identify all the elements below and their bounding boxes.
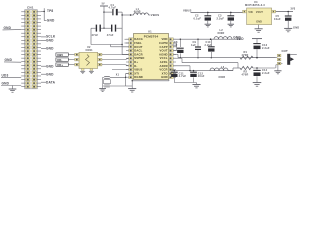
svg-text:AGND: AGND xyxy=(159,52,168,56)
junction xyxy=(132,80,133,81)
svg-text:GND: GND xyxy=(293,26,299,30)
svg-text:SSPND: SSPND xyxy=(134,56,144,60)
wire regulator ground pin xyxy=(258,25,260,29)
wire xyxy=(102,64,125,66)
wire VDD rail xyxy=(173,38,240,40)
wire xyxy=(173,46,176,48)
wire xyxy=(125,73,127,86)
svg-text:VOUT: VOUT xyxy=(256,12,264,14)
capacitor C7 47nF xyxy=(111,25,113,32)
junction xyxy=(210,38,212,40)
wire xyxy=(101,27,111,29)
wire xyxy=(125,38,129,40)
svg-text:GND: GND xyxy=(47,18,55,22)
svg-text:PCM2704: PCM2704 xyxy=(144,35,159,39)
junction xyxy=(256,57,258,59)
svg-text:470R: 470R xyxy=(242,72,249,76)
svg-text:1uF: 1uF xyxy=(191,44,196,47)
wire xyxy=(174,82,196,84)
svg-text:GND: GND xyxy=(161,75,168,79)
wire xyxy=(116,27,122,29)
wire xyxy=(41,73,46,75)
svg-text:2.2uF: 2.2uF xyxy=(217,16,225,20)
svg-text:0.1uF: 0.1uF xyxy=(194,16,202,20)
wire xyxy=(122,46,129,48)
wire xyxy=(91,44,122,46)
svg-text:TP8: TP8 xyxy=(47,9,53,13)
wire right channel xyxy=(173,57,182,59)
wire xyxy=(44,20,46,22)
svg-text:UD-: UD- xyxy=(57,58,63,62)
junction xyxy=(121,14,122,15)
ground xyxy=(89,70,94,72)
svg-text:GND: GND xyxy=(2,82,10,86)
ground xyxy=(128,88,136,90)
svg-text:MCP1825S-3.3: MCP1825S-3.3 xyxy=(245,3,265,7)
ground xyxy=(255,28,263,30)
svg-text:GND: GND xyxy=(46,39,54,43)
svg-text:GND: GND xyxy=(5,58,13,62)
wire xyxy=(112,69,129,71)
svg-text:D+: D+ xyxy=(134,60,138,64)
svg-text:XTO: XTO xyxy=(162,71,168,75)
svg-text:DGND: DGND xyxy=(134,75,143,79)
wire xyxy=(148,14,150,16)
net label UD- boxed xyxy=(56,58,68,61)
svg-text:AZRR: AZRR xyxy=(160,64,168,68)
svg-text:10uF: 10uF xyxy=(274,17,281,21)
svg-text:GND: GND xyxy=(256,22,262,24)
svg-text:DACR: DACR xyxy=(134,52,142,56)
wire xyxy=(43,8,45,20)
svg-text:UD+: UD+ xyxy=(57,63,63,67)
ground xyxy=(284,27,292,29)
pin 2 xyxy=(272,10,276,13)
wire xyxy=(102,77,104,88)
wire xyxy=(68,54,74,56)
svg-text:GND: GND xyxy=(46,72,54,76)
wire xyxy=(102,54,125,56)
capacitor C11 4.7uF xyxy=(173,71,175,72)
wire xyxy=(253,57,276,59)
pin 1 xyxy=(243,10,247,13)
svg-text:2.2uF: 2.2uF xyxy=(262,46,270,50)
ground xyxy=(228,23,234,25)
svg-text:2.2uF: 2.2uF xyxy=(262,71,270,75)
wire xyxy=(41,65,46,67)
wire xyxy=(173,42,176,44)
svg-text:4.7uF: 4.7uF xyxy=(179,74,187,78)
svg-text:3V3: 3V3 xyxy=(291,8,296,11)
svg-text:U1: U1 xyxy=(148,29,152,33)
svg-text:1uF: 1uF xyxy=(173,44,178,47)
svg-text:VCCR: VCCR xyxy=(159,68,167,72)
wire xyxy=(41,47,46,49)
junction xyxy=(189,70,190,71)
pin bottom 1 xyxy=(81,69,84,71)
ground xyxy=(192,84,200,86)
junction xyxy=(256,67,258,69)
junction xyxy=(287,11,289,13)
svg-text:FSEL: FSEL xyxy=(134,41,142,45)
wire vcom xyxy=(173,65,190,67)
wire xyxy=(126,85,133,87)
wire xyxy=(41,36,46,38)
svg-text:GND: GND xyxy=(46,46,54,50)
wire xyxy=(253,67,276,69)
svg-text:CAPM: CAPM xyxy=(159,41,168,45)
junction xyxy=(103,28,104,29)
svg-text:AZRL: AZRL xyxy=(160,60,168,64)
wire xyxy=(90,28,92,44)
resistor R2 470R xyxy=(240,66,253,69)
junction xyxy=(230,12,232,14)
wire xyxy=(168,80,170,81)
junction xyxy=(125,77,126,78)
wire xyxy=(132,80,169,82)
wire xyxy=(1,76,21,78)
wire xyxy=(4,61,21,63)
svg-text:CN1: CN1 xyxy=(27,5,34,9)
svg-text:OUT: OUT xyxy=(282,49,289,53)
wire xyxy=(117,11,122,13)
ground xyxy=(205,23,211,25)
capacitor C13 2.2uF xyxy=(253,43,260,45)
wire xyxy=(122,46,129,48)
wire xyxy=(41,40,46,42)
net label UD+ boxed xyxy=(56,63,68,66)
wire xyxy=(68,59,74,61)
svg-text:L3: L3 xyxy=(221,66,225,69)
wire xyxy=(173,50,176,52)
junction xyxy=(44,11,45,12)
svg-text:CAPP: CAPP xyxy=(160,45,168,49)
svg-text:VBUS: VBUS xyxy=(134,68,142,72)
svg-text:VIN: VIN xyxy=(248,12,253,14)
svg-text:GND: GND xyxy=(4,26,12,30)
wire xyxy=(102,59,125,61)
wire xyxy=(3,29,22,31)
wire xyxy=(131,79,133,89)
svg-text:VBUS: VBUS xyxy=(151,13,160,17)
wire xyxy=(110,85,126,87)
svg-text:VDD: VDD xyxy=(161,37,167,41)
svg-text:47nF: 47nF xyxy=(92,33,99,37)
wire xyxy=(41,11,44,13)
wire xyxy=(68,64,74,66)
wire xyxy=(176,43,178,51)
svg-text:XTI: XTI xyxy=(134,71,139,75)
svg-text:47nF: 47nF xyxy=(107,33,114,37)
svg-text:DACG: DACG xyxy=(134,37,143,41)
junction xyxy=(207,12,209,14)
svg-text:5V: 5V xyxy=(102,4,105,6)
ground xyxy=(253,82,262,84)
wire VBUS rail xyxy=(191,11,243,13)
wire xyxy=(196,83,198,85)
svg-text:VCCL: VCCL xyxy=(160,56,168,60)
wire xyxy=(228,70,233,72)
wire xyxy=(41,81,46,83)
svg-text:600R: 600R xyxy=(218,31,225,35)
junction xyxy=(103,11,104,12)
jack sleeve xyxy=(287,54,290,65)
capacitor C12 10nF xyxy=(193,71,195,72)
wire xyxy=(12,86,14,90)
wire xyxy=(110,45,112,47)
svg-text:D-: D- xyxy=(134,64,137,68)
wire xyxy=(126,72,129,74)
capacitor C14 2.2uF xyxy=(256,68,258,70)
ground xyxy=(80,70,85,72)
svg-text:GND: GND xyxy=(46,64,54,68)
svg-text:DATA: DATA xyxy=(46,80,56,84)
wire xyxy=(122,14,134,16)
pin bottom 2 xyxy=(90,69,93,71)
net label UB5 boxed xyxy=(56,53,68,56)
wire xyxy=(110,76,126,78)
svg-text:VDD: VDD xyxy=(237,37,245,41)
svg-text:UB5: UB5 xyxy=(57,53,63,57)
svg-text:CM11: CM11 xyxy=(86,49,94,52)
svg-text:10nF: 10nF xyxy=(198,74,205,78)
wire xyxy=(1,85,21,87)
wire xyxy=(125,42,129,44)
ground xyxy=(99,88,106,90)
svg-text:DACL: DACL xyxy=(134,49,142,53)
svg-text:DOUT: DOUT xyxy=(134,45,143,49)
junction xyxy=(121,44,122,45)
wire xyxy=(281,63,283,65)
wire xyxy=(103,6,105,28)
wire VBUS vertical xyxy=(121,12,123,54)
wire xyxy=(276,11,293,13)
power flag AGND xyxy=(252,38,262,40)
capacitor C6 47nF xyxy=(91,27,96,29)
connector CN1 dual-row header xyxy=(21,10,41,89)
ground xyxy=(274,70,281,72)
svg-text:VOUT: VOUT xyxy=(160,49,168,53)
svg-text:X1: X1 xyxy=(116,74,120,77)
ground xyxy=(9,88,17,90)
svg-text:UD3: UD3 xyxy=(2,73,9,77)
wire xyxy=(111,46,123,48)
wire xyxy=(122,53,129,55)
svg-text:VBUS: VBUS xyxy=(183,9,192,13)
svg-text:600R: 600R xyxy=(219,76,226,79)
inductor L3 xyxy=(210,68,228,71)
wire left channel xyxy=(173,53,178,55)
junction xyxy=(130,14,132,16)
